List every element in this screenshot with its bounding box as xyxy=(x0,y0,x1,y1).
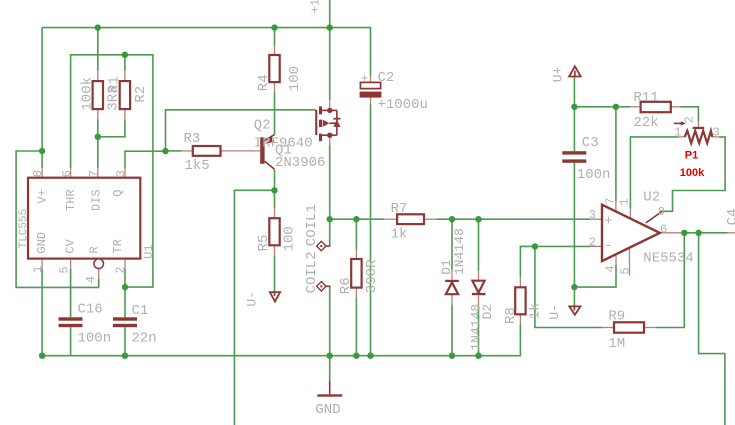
label R11 name xyxy=(633,90,658,106)
op-amp pin6 output stub xyxy=(660,232,682,234)
wire V+ rail to R4 xyxy=(274,28,276,46)
node C2 bottom rail xyxy=(367,353,373,359)
wire R3 left xyxy=(166,150,182,152)
resistor R8 body xyxy=(515,287,525,314)
op-amp pin 8 number xyxy=(658,205,665,219)
resistor R4 body xyxy=(269,55,279,82)
label C16 name xyxy=(78,302,103,318)
label P1 name red xyxy=(685,150,698,162)
svg-text:GND: GND xyxy=(35,232,49,254)
svg-text:100k: 100k xyxy=(680,167,705,179)
label P1 value 100k red xyxy=(680,167,705,179)
op-amp pin4 stub xyxy=(615,254,617,264)
svg-text:1N4148: 1N4148 xyxy=(468,304,483,351)
resistor R5 body xyxy=(269,218,279,245)
node D2 bottom rail xyxy=(475,353,481,359)
svg-text:2: 2 xyxy=(682,116,696,123)
potentiometer P1 wiper arrow xyxy=(674,121,686,125)
svg-text:4: 4 xyxy=(84,276,98,283)
wire R5 to V- xyxy=(274,255,276,292)
U1 pin 8 number rotated xyxy=(31,170,45,177)
U1 pin name V+ rotated xyxy=(35,189,49,203)
svg-text:GND: GND xyxy=(315,402,340,418)
wire drain node to R6 xyxy=(355,219,357,249)
node output exit xyxy=(695,230,701,236)
op-amp pin 7 number rotated xyxy=(603,197,617,204)
label R6 name rotated xyxy=(338,277,354,294)
wire op-amp pin4 to V- xyxy=(574,264,616,287)
net label COIL1 rotated xyxy=(304,204,320,246)
svg-text:R6: R6 xyxy=(338,277,354,294)
wire pin5 to C16 xyxy=(70,269,72,318)
wire C16 to ground rail xyxy=(70,327,72,356)
svg-text:1M: 1M xyxy=(608,336,625,352)
label C4 rotated at right edge xyxy=(725,209,735,226)
net label COIL2 rotated xyxy=(304,251,320,293)
svg-text:R4: R4 xyxy=(256,74,272,91)
wire D2 top xyxy=(478,219,480,270)
transistor Q1 emitter arrow xyxy=(265,136,274,144)
wire Q1 collector node xyxy=(274,170,276,191)
node pin7 R11 xyxy=(613,104,619,110)
svg-text:TLC555: TLC555 xyxy=(18,209,30,249)
node R8 R9 pin2 xyxy=(532,243,538,249)
label R5 value 100 rotated xyxy=(282,226,298,251)
svg-text:100n: 100n xyxy=(78,331,112,347)
label U2 value NE5534 xyxy=(643,250,693,266)
resistor R11 pins xyxy=(630,106,681,108)
MOSFET Q2 terminal dots xyxy=(327,108,332,138)
op-amp pin5 stub xyxy=(629,248,631,276)
label R5 name rotated xyxy=(256,235,272,252)
label C1 name xyxy=(132,303,149,319)
node D1 bottom rail xyxy=(449,353,455,359)
potentiometer P1 pin 3 number xyxy=(713,126,720,140)
op-amp pin1 stub xyxy=(629,209,631,219)
MOSFET Q2 source pin xyxy=(329,100,331,110)
wire R9 right to output xyxy=(656,233,684,328)
label R8 name rotated xyxy=(503,307,519,324)
wire pin2 to C1 xyxy=(124,269,126,318)
wire reset loop pin4 to V+ xyxy=(16,151,99,287)
U1 pin 5 stub xyxy=(70,259,72,269)
svg-text:C2: C2 xyxy=(378,70,395,86)
svg-text:U1: U1 xyxy=(142,244,156,258)
potentiometer P1 zigzag xyxy=(685,131,713,143)
resistor R6 body xyxy=(351,259,361,288)
op-amp pin 5 number rotated xyxy=(618,267,632,274)
wire R8 top to -input node xyxy=(520,246,535,277)
svg-text:V+: V+ xyxy=(35,189,49,203)
wire IC pin3 output xyxy=(125,151,166,168)
svg-text:CV: CV xyxy=(63,238,77,253)
wire C3 bottom to V- node xyxy=(573,163,575,306)
label R3 name xyxy=(184,131,201,147)
svg-text:7: 7 xyxy=(87,170,101,177)
node R1 top on V+ rail xyxy=(95,24,101,30)
label U2 name xyxy=(643,190,660,206)
svg-text:390R: 390R xyxy=(364,259,380,293)
label D2 value 1N4148 rotated xyxy=(468,304,483,351)
U1 pin 6 number rotated xyxy=(60,170,74,177)
wire R11 right to P1 wiper xyxy=(681,107,699,122)
label Q2 value IRF9640 xyxy=(254,135,313,151)
node Q1 collector xyxy=(271,187,277,193)
svg-text:100n: 100n xyxy=(577,167,611,183)
capacitor C16 plates xyxy=(59,317,83,327)
svg-text:1: 1 xyxy=(31,265,45,272)
U1 pin name GND rotated xyxy=(35,232,49,254)
resistor R7 body xyxy=(397,214,424,224)
op-amp plus input mark xyxy=(604,213,612,229)
wire collector node down left column xyxy=(234,190,274,425)
U1 pin name THR rotated xyxy=(64,189,78,211)
label R6 value 390R rotated xyxy=(364,259,380,293)
MOSFET Q2 body diode line xyxy=(336,110,338,135)
label R1 value 100k rotated xyxy=(80,77,96,111)
svg-text:+12V: +12V xyxy=(309,0,323,13)
wire D1 bottom xyxy=(451,304,453,355)
wire V+ node to op-amp pin7 xyxy=(615,107,617,202)
resistor R2 body xyxy=(120,81,130,109)
label R2 value 3R3 rotated xyxy=(106,85,122,110)
resistor R11 body xyxy=(641,102,671,112)
label C2 plus sign xyxy=(361,71,369,86)
label R3 value 1k5 xyxy=(185,158,210,174)
svg-text:R7: R7 xyxy=(391,201,408,217)
wire GND symbol stem xyxy=(329,356,331,381)
wire +12V entry from top edge xyxy=(329,0,331,28)
svg-text:100: 100 xyxy=(287,66,303,91)
label R7 value 1k xyxy=(391,227,408,243)
MOSFET Q2 gate bar xyxy=(315,110,317,135)
MOSFET Q2 channel bars xyxy=(319,106,322,141)
svg-text:U2: U2 xyxy=(643,190,660,206)
diode D2 pins xyxy=(478,271,480,306)
label R7 name xyxy=(391,201,408,217)
resistor R2 pins xyxy=(124,71,126,119)
svg-text:1: 1 xyxy=(674,126,681,140)
U1 pin name R rotated xyxy=(87,246,101,253)
MOSFET Q2 drain lead xyxy=(322,134,337,136)
node gate R3 Q xyxy=(162,148,168,154)
potentiometer P1 wiper pin xyxy=(697,122,699,128)
svg-text:+: + xyxy=(361,71,369,86)
resistor R1 body xyxy=(93,81,103,109)
op-amp pin 2 number xyxy=(589,235,596,249)
label R2 name rotated xyxy=(133,86,149,103)
IC U1 TLC555 body xyxy=(28,178,140,259)
U1 pin 4 stub xyxy=(98,269,100,279)
node D1 top xyxy=(449,216,455,222)
supply U- symbol below R5 xyxy=(270,292,280,302)
svg-text:COIL1: COIL1 xyxy=(304,204,320,246)
svg-text:R3: R3 xyxy=(184,131,201,147)
node R2 top THR net xyxy=(122,52,128,58)
op-amp U2 triangle xyxy=(602,205,660,261)
svg-text:1k: 1k xyxy=(528,303,544,320)
svg-text:5: 5 xyxy=(58,266,72,273)
wire V+ rail to R1 top xyxy=(97,28,99,72)
label C16 value 100n xyxy=(78,331,112,347)
svg-text:DIS: DIS xyxy=(89,189,103,211)
svg-text:3: 3 xyxy=(114,170,128,177)
U1 pin 2 number rotated xyxy=(113,266,127,273)
capacitor C4 pin at edge xyxy=(727,232,735,234)
wire drain node to R7 xyxy=(330,218,385,220)
op-amp U2 pin8 stub xyxy=(646,211,663,223)
svg-text:3: 3 xyxy=(589,208,596,222)
svg-text:+1000u: +1000u xyxy=(378,97,428,113)
wire P1 pin3 to op-amp pin8 xyxy=(663,137,726,211)
svg-text:22n: 22n xyxy=(132,331,157,347)
svg-text:R2: R2 xyxy=(133,86,149,103)
resistor R7 pins xyxy=(384,218,436,220)
node +12V entry xyxy=(327,24,333,30)
wire MOSFET drain to COIL1 flag xyxy=(329,146,331,246)
U1 pin 1 stub xyxy=(41,259,43,269)
transistor Q1 emitter xyxy=(265,135,275,141)
wire R7 to op-amp +input xyxy=(437,218,590,220)
label C2 name xyxy=(378,70,395,86)
wire C1 to ground rail xyxy=(124,327,126,356)
wire MOSFET source to rail xyxy=(329,28,331,101)
U1 pin 5 number rotated xyxy=(58,266,72,273)
svg-text:COIL2: COIL2 xyxy=(304,251,320,293)
label Q1 value 2N3906 xyxy=(275,155,325,171)
label D1 name rotated xyxy=(439,259,454,275)
svg-text:3: 3 xyxy=(713,126,720,140)
svg-text:TR: TR xyxy=(111,239,125,253)
wire -input node down to R9 xyxy=(535,246,602,327)
resistor R8 pins xyxy=(519,277,521,324)
wire COIL2 flag to ground rail xyxy=(329,286,331,355)
U1 pin name Q rotated xyxy=(111,190,125,197)
MOSFET Q2 source lead xyxy=(322,109,337,111)
resistor R9 pins xyxy=(602,327,656,329)
transistor Q1 base bar xyxy=(260,137,264,164)
svg-text:1k5: 1k5 xyxy=(185,158,210,174)
wire D2 bottom xyxy=(478,305,480,355)
svg-text:8: 8 xyxy=(31,170,45,177)
svg-text:R11: R11 xyxy=(633,90,658,106)
label R9 name xyxy=(608,309,625,325)
label D2 name rotated xyxy=(480,304,495,320)
U1 pin 1 number rotated xyxy=(31,265,45,272)
resistor R1 pins xyxy=(97,71,99,119)
svg-text:R: R xyxy=(87,246,101,253)
label flag COIL2 xyxy=(317,282,331,291)
op-amp pin 1 number rotated xyxy=(617,198,631,205)
resistor R4 pins xyxy=(274,45,276,92)
label C1 value 22n xyxy=(132,331,157,347)
node pin1 ground rail xyxy=(39,353,45,359)
op-amp pin 6 number xyxy=(660,223,667,237)
label R1 name rotated xyxy=(106,76,122,93)
svg-text:C16: C16 xyxy=(78,302,103,318)
potentiometer P1 end pins xyxy=(678,136,719,138)
resistor R3 body xyxy=(193,146,221,156)
node TR C1 xyxy=(122,284,128,290)
label U1 name rotated xyxy=(142,244,156,258)
wire -input node to op-amp pin2 xyxy=(535,245,590,247)
svg-text:2: 2 xyxy=(113,266,127,273)
capacitor C2 negative plate xyxy=(360,92,382,98)
wire R1 bottom to IC pin7 xyxy=(97,119,99,168)
wire node to R5 xyxy=(274,190,276,208)
op-amp pin7 stub xyxy=(615,202,617,212)
node output R9 xyxy=(681,230,687,236)
supply U+ symbol xyxy=(569,66,581,76)
capacitor C2 positive plate xyxy=(360,82,380,88)
MOSFET Q2 substrate arrow xyxy=(323,120,337,127)
MOSFET Q2 drain pin xyxy=(329,135,331,145)
wire IC pin1 to ground rail xyxy=(41,269,43,356)
svg-text:R9: R9 xyxy=(608,309,625,325)
svg-text:U+: U+ xyxy=(551,66,566,82)
U1 pin name DIS rotated xyxy=(89,189,103,211)
supply label U- rotated near R5 xyxy=(245,291,260,307)
U1 pin 3 number rotated xyxy=(114,170,128,177)
U1 pin 4 inversion circle xyxy=(94,259,104,269)
label GND text xyxy=(315,402,340,418)
potentiometer P1 pin 2 number rotated xyxy=(682,116,696,123)
label R4 value 100 rotated xyxy=(287,66,303,91)
svg-text:Q: Q xyxy=(111,190,125,197)
label C3 value 100n xyxy=(577,167,611,183)
node R6 bottom rail xyxy=(353,353,359,359)
op-amp pin3 stub xyxy=(590,218,602,220)
U1 pin name TR rotated xyxy=(111,239,125,253)
op-amp pin 3 number xyxy=(589,208,596,222)
label R11 value 22k xyxy=(633,115,658,131)
svg-text:U-: U- xyxy=(245,291,260,307)
supply label U- rotated near op-amp xyxy=(547,304,562,320)
svg-text:2: 2 xyxy=(589,235,596,249)
op-amp pin2 stub xyxy=(590,245,602,247)
wire D1 top xyxy=(451,219,453,270)
svg-text:NE5534: NE5534 xyxy=(643,250,693,266)
capacitor C1 plates xyxy=(113,317,137,327)
label D1 value 1N4148 rotated xyxy=(452,228,467,275)
U1 pin 6 stub xyxy=(70,168,72,178)
wire Q output to MOSFET gate xyxy=(166,110,316,151)
svg-text:1N4148: 1N4148 xyxy=(452,228,467,275)
op-amp pin 4 number rotated xyxy=(603,265,617,272)
diode D2 cathode bar xyxy=(472,293,486,295)
wire +12V top rail xyxy=(42,28,370,77)
svg-text:6: 6 xyxy=(60,170,74,177)
svg-text:100: 100 xyxy=(282,226,298,251)
wire P1 pin1 to op-amp pin1 xyxy=(630,137,678,209)
label R4 name rotated xyxy=(256,74,272,91)
label R8 value 1k rotated xyxy=(528,303,544,320)
node R6 top xyxy=(353,216,359,222)
wire C2 to ground rail xyxy=(370,104,372,356)
svg-text:1k: 1k xyxy=(391,227,408,243)
label C2 value +1000u xyxy=(378,97,428,113)
label C3 name xyxy=(582,135,599,151)
diode D1 pins xyxy=(451,270,453,305)
node DIS R1 R2 xyxy=(95,134,101,140)
wire R2 bottom to DIS node xyxy=(98,119,125,137)
U1 pin 7 stub xyxy=(97,168,99,178)
U1 pin name CV rotated xyxy=(63,238,77,253)
wire V+ row to R11 xyxy=(574,106,630,108)
node R4 top on V+ rail xyxy=(271,24,277,30)
diode D2 triangle xyxy=(472,281,484,293)
U1 pin 7 number rotated xyxy=(87,170,101,177)
supply label U+ rotated xyxy=(551,66,566,82)
svg-text:+: + xyxy=(604,213,612,229)
svg-text:R8: R8 xyxy=(503,307,519,324)
resistor R5 pins xyxy=(274,208,276,255)
svg-text:8: 8 xyxy=(658,205,665,219)
U1 pin 3 stub xyxy=(124,168,126,178)
transistor Q1 collector xyxy=(265,161,275,169)
op-amp minus input mark xyxy=(604,238,612,254)
svg-text:1: 1 xyxy=(617,198,631,205)
supply U- symbol below op-amp xyxy=(569,306,580,314)
ground symbol xyxy=(317,381,342,397)
potentiometer P1 wiper bar xyxy=(693,127,705,129)
wire U+ to C3 xyxy=(573,77,575,152)
svg-text:-: - xyxy=(604,238,612,254)
diode D1 triangle xyxy=(446,282,458,294)
svg-text:7: 7 xyxy=(603,197,617,204)
wire op-amp output xyxy=(682,232,728,234)
wire THR-TR loop xyxy=(71,55,153,287)
net label +12V rotated at top xyxy=(309,0,323,13)
resistor R6 pins xyxy=(355,249,357,298)
resistor R3 pins and Q1 base wire xyxy=(181,150,260,152)
wire R2 top to THR net xyxy=(124,55,126,71)
wire R6 to ground rail xyxy=(355,298,357,356)
svg-text:THR: THR xyxy=(64,189,78,211)
svg-text:R1: R1 xyxy=(106,76,122,93)
svg-text:C1: C1 xyxy=(132,303,149,319)
MOSFET Q2 body diode xyxy=(333,118,340,127)
svg-text:C4: C4 xyxy=(725,209,735,226)
svg-text:6: 6 xyxy=(660,223,667,237)
svg-text:100k: 100k xyxy=(80,77,96,111)
U1 pin 8 stub xyxy=(41,168,43,178)
node reset loop on V+ xyxy=(39,148,45,154)
node GND symbol rail xyxy=(327,353,333,359)
label Q1 name xyxy=(275,142,292,158)
node C3 pin4 V- xyxy=(571,284,577,290)
node drain R7 xyxy=(327,216,333,222)
capacitor C2 pins xyxy=(370,76,372,104)
node C1 ground rail xyxy=(122,353,128,359)
label flag COIL1 xyxy=(317,241,331,250)
node U+ C3 xyxy=(571,104,577,110)
capacitor C3 plates xyxy=(562,151,586,163)
svg-text:U-: U- xyxy=(547,304,562,320)
wire R4 to Q1 emitter xyxy=(274,92,276,135)
svg-text:P1: P1 xyxy=(685,150,698,162)
diode D1 cathode bar xyxy=(445,280,459,282)
label R9 value 1M xyxy=(608,336,625,352)
wire ground rail xyxy=(42,324,520,355)
label U1 value TLC555 rotated xyxy=(18,209,30,249)
U1 pin 4 number rotated xyxy=(84,276,98,283)
potentiometer P1 pin 1 number xyxy=(674,126,681,140)
U1 pin 2 stub xyxy=(124,259,126,269)
svg-text:Q2: Q2 xyxy=(254,118,271,134)
svg-text:4: 4 xyxy=(603,265,617,272)
wire V+ vertical to IC pin 8 xyxy=(41,28,43,168)
